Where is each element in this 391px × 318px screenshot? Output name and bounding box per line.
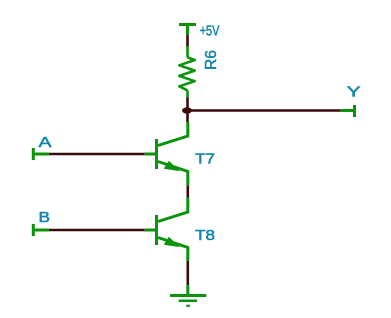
terminal B xyxy=(33,224,49,236)
node junction xyxy=(182,107,192,113)
transistor T7 xyxy=(145,122,188,186)
wire R6 to node xyxy=(186,98,189,111)
T7 emitter arrow xyxy=(164,161,180,171)
T8 emitter arrow xyxy=(164,237,180,247)
ground xyxy=(170,285,206,306)
svg-text:B: B xyxy=(39,209,51,226)
wire T7 collector to node xyxy=(186,111,189,123)
wire B to T8 base xyxy=(49,229,145,232)
svg-text:R6: R6 xyxy=(203,50,220,70)
resistor R6 xyxy=(179,46,194,98)
wire T8 emitter to ground xyxy=(187,261,190,285)
wire power to R6 xyxy=(186,35,189,47)
power +5V symbol xyxy=(179,25,196,36)
wire node to Y xyxy=(190,109,341,112)
svg-text:T8: T8 xyxy=(195,227,215,244)
svg-text:Y: Y xyxy=(347,84,361,101)
wire A to T7 base xyxy=(49,153,145,156)
terminal A xyxy=(33,148,49,160)
svg-text:T7: T7 xyxy=(195,151,215,168)
terminal Y xyxy=(341,105,355,117)
wire T7 emitter to T8 collector xyxy=(187,186,190,198)
svg-text:+5V: +5V xyxy=(200,22,220,39)
transistor T8 xyxy=(145,198,188,261)
svg-text:A: A xyxy=(39,134,52,151)
